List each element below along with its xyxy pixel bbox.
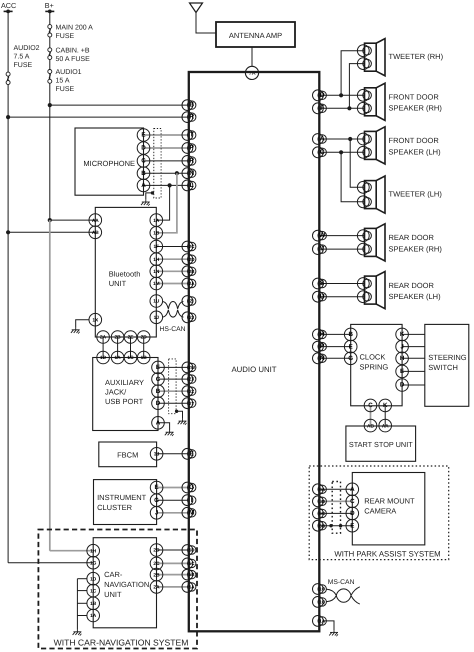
connector C microphone	[137, 155, 150, 168]
svg-text:E: E	[141, 132, 145, 139]
svg-text:1A: 1A	[153, 218, 160, 224]
box CAR-NAVIGATION UNIT	[93, 538, 156, 628]
svg-text:L: L	[190, 182, 194, 189]
svg-text:AUDIO1: AUDIO1	[56, 69, 82, 76]
wire audio to rear door speaker RH -	[319, 248, 364, 250]
connector D audio unit right (speaker)	[313, 90, 324, 101]
wire ACC rail vertical	[7, 11, 9, 562]
connector B microphone	[137, 167, 150, 180]
connector D aux	[152, 397, 165, 410]
connector AB start stop unit	[364, 419, 377, 432]
wire bluetooth 2B to aux 1A	[117, 337, 119, 358]
junction audio N to bluetooth 1B	[175, 171, 179, 175]
fuse AUDIO2 7.5A	[6, 72, 10, 76]
connector D microphone	[137, 142, 150, 155]
ground car-navigation unit	[73, 630, 82, 636]
wire clock spring E to steering switch	[402, 370, 425, 372]
connector 2B audio unit left (bluetooth)	[182, 266, 193, 277]
svg-text:N: N	[189, 170, 194, 177]
wire MS-CAN twisted pair high	[326, 587, 360, 596]
speaker TWEETER (RH)	[365, 39, 386, 76]
wire MS-CAN twisted pair low	[326, 596, 360, 605]
svg-text:5C: 5C	[189, 561, 196, 566]
svg-text:FUSE: FUSE	[56, 86, 75, 93]
fuse CABIN +B 50A	[48, 48, 52, 52]
svg-text:MAIN 200 A: MAIN 200 A	[56, 25, 94, 32]
svg-text:B: B	[156, 388, 161, 395]
connector 6A audio unit right (camera)	[313, 484, 324, 495]
wire clock spring K to steering switch	[402, 333, 425, 335]
svg-text:W: W	[319, 232, 326, 239]
svg-text:6B: 6B	[319, 523, 326, 528]
wire bluetooth 1N to audio 2B (shielded)	[156, 270, 189, 272]
connector 2Z audio unit left (aux)	[182, 386, 193, 397]
svg-text:G: G	[154, 497, 159, 504]
connector U audio unit right (speaker)	[313, 291, 324, 302]
wire microphone A to audio L	[144, 184, 189, 186]
box CLOCK SPRING	[351, 324, 402, 405]
connector C audio unit right (speaker)	[313, 147, 324, 158]
wire microphone D to audio P (shielded)	[144, 147, 189, 149]
wire HS-CAN twisted pair low	[163, 310, 184, 317]
svg-text:MS-CAN: MS-CAN	[328, 579, 355, 586]
svg-text:FRONT DOOR: FRONT DOOR	[389, 93, 440, 102]
connector G audio unit left (cluster)	[182, 482, 193, 493]
wire cluster E to audio G (shielded)	[157, 487, 189, 489]
ground aux shield	[178, 419, 187, 425]
connector R audio unit left (microphone)	[182, 156, 193, 167]
connector 1J bluetooth	[150, 311, 163, 324]
svg-text:C: C	[350, 498, 355, 505]
svg-text:TWEETER (LH): TWEETER (LH)	[389, 189, 443, 198]
svg-text:SPEAKER (RH): SPEAKER (RH)	[389, 104, 443, 113]
wire microphone E to audio T (shielded)	[144, 134, 189, 136]
svg-text:REAR MOUNT: REAR MOUNT	[364, 497, 415, 506]
connector E clock spring	[344, 340, 357, 353]
box REAR MOUNT CAMERA	[352, 473, 425, 545]
connector 1M bluetooth	[150, 277, 163, 290]
wire audio P to clock spring E	[319, 346, 350, 348]
connector 6B audio unit right (camera)	[313, 520, 324, 531]
connector 1F bluetooth	[150, 240, 163, 253]
svg-text:AUDIO2: AUDIO2	[14, 45, 40, 52]
svg-text:1H: 1H	[90, 548, 97, 554]
dashed group box WITH CAR-NAVIGATION SYSTEM	[38, 530, 197, 649]
svg-text:N: N	[320, 355, 325, 362]
svg-text:1A: 1A	[115, 355, 122, 361]
dotted group box WITH PARK ASSIST SYSTEM	[309, 466, 449, 560]
svg-text:2E: 2E	[128, 335, 135, 341]
wire audio 6C to camera D	[319, 512, 352, 514]
svg-text:CABIN. +B: CABIN. +B	[56, 48, 90, 55]
connector S audio unit right (speaker)	[313, 278, 324, 289]
svg-text:U: U	[320, 293, 325, 300]
connector A microphone	[137, 179, 150, 192]
svg-text:2J: 2J	[189, 315, 195, 320]
svg-text:6A: 6A	[319, 487, 326, 492]
svg-text:1A: 1A	[90, 613, 97, 619]
connector C camera	[346, 495, 359, 508]
connector B clock spring	[344, 328, 357, 341]
svg-text:2D: 2D	[189, 257, 196, 262]
connector 2W audio unit left (aux)	[182, 362, 193, 373]
connector 1D aux	[97, 351, 110, 364]
connector 2D audio unit left (bluetooth)	[182, 254, 193, 265]
connector 1O audio unit right (MS-CAN)	[313, 584, 324, 595]
svg-text:SPRING: SPRING	[360, 363, 389, 372]
wire bluetooth 1M to audio 2A (shielded)	[156, 283, 189, 285]
svg-text:WITH CAR-NAVIGATION SYSTEM: WITH CAR-NAVIGATION SYSTEM	[54, 637, 189, 647]
connector AA start stop unit	[379, 419, 392, 432]
svg-text:J: J	[155, 510, 159, 517]
wire B+ to navigation 1H	[50, 550, 93, 552]
svg-text:FRONT DOOR: FRONT DOOR	[389, 136, 440, 145]
wire cluster J to audio M (shielded)	[157, 512, 189, 514]
svg-text:CAR-: CAR-	[104, 570, 123, 579]
svg-text:5D: 5D	[189, 548, 196, 553]
wire microphone B to audio N	[144, 172, 189, 174]
svg-text:FBCM: FBCM	[117, 450, 138, 459]
connector 2D bluetooth	[137, 331, 150, 344]
svg-text:D: D	[156, 400, 161, 407]
wire branch to tweeter RH -	[349, 64, 364, 109]
wire aux C to audio 2X	[158, 378, 189, 380]
connector 2B navigation	[150, 568, 163, 581]
svg-text:K: K	[383, 402, 388, 409]
svg-text:SPEAKER (LH): SPEAKER (LH)	[389, 147, 442, 156]
svg-text:5A: 5A	[189, 585, 196, 590]
connector T audio unit left (microphone)	[182, 130, 193, 141]
wire bluetooth 1H to audio 2D (shielded)	[156, 258, 189, 260]
connector 5A audio unit left (navigation)	[182, 582, 193, 593]
svg-text:1C: 1C	[90, 588, 97, 594]
svg-text:2A: 2A	[153, 585, 160, 591]
wire clock spring K to start stop AA	[384, 406, 386, 426]
connector 2A bluetooth	[97, 331, 110, 344]
connector 1A bluetooth	[150, 214, 163, 227]
speaker FRONT DOOR SPEAKER (RH)	[365, 83, 386, 120]
svg-text:3J: 3J	[154, 452, 160, 458]
connector 1H bluetooth	[150, 253, 163, 266]
svg-text:ACC: ACC	[1, 1, 16, 10]
fuse MAIN 200A	[48, 25, 52, 29]
wire FBCM 3H to audio E	[157, 453, 189, 455]
speaker FRONT DOOR SPEAKER (LH)	[365, 127, 386, 164]
ground audio unit	[329, 630, 338, 636]
svg-text:2Z: 2Z	[189, 389, 195, 394]
svg-text:P: P	[189, 145, 194, 152]
svg-text:A: A	[156, 420, 161, 427]
svg-text:2C: 2C	[189, 244, 196, 249]
svg-text:E: E	[400, 368, 404, 375]
wire audio F to front door speaker RH -	[319, 107, 364, 109]
svg-text:REAR DOOR: REAR DOOR	[389, 281, 435, 290]
wire audio N branch to bluetooth 1B (shielded)	[156, 173, 177, 233]
connector I audio unit left (cluster)	[182, 495, 193, 506]
connector M audio unit left (cluster)	[182, 507, 193, 518]
svg-text:P: P	[320, 343, 325, 350]
wire audio 1A to ground	[323, 621, 334, 630]
connector H clock spring	[396, 352, 409, 365]
svg-text:D: D	[141, 145, 146, 152]
svg-text:2B: 2B	[115, 335, 122, 341]
connector 2D navigation	[150, 544, 163, 557]
connector 1N bluetooth	[150, 265, 163, 278]
svg-text:SPEAKER (LH): SPEAKER (LH)	[389, 292, 442, 301]
connector C aux	[152, 373, 165, 386]
connector E aux	[152, 361, 165, 374]
connector N audio unit left (microphone)	[182, 168, 193, 179]
wire B+ rail vertical upper	[49, 11, 51, 220]
svg-text:B: B	[141, 170, 146, 177]
connector D clock spring	[396, 379, 409, 392]
svg-text:1B: 1B	[90, 601, 97, 607]
svg-text:2I: 2I	[190, 299, 194, 304]
svg-text:USB PORT: USB PORT	[105, 397, 144, 406]
svg-text:R: R	[189, 158, 194, 165]
connector 2C navigation	[150, 557, 163, 570]
connector 2B bluetooth	[111, 331, 124, 344]
wire clock spring D to steering switch	[402, 384, 425, 386]
svg-text:FUSE: FUSE	[14, 62, 33, 69]
box MICROPHONE	[75, 128, 144, 195]
speaker REAR DOOR SPEAKER (LH)	[365, 272, 386, 309]
speaker REAR DOOR SPEAKER (RH)	[365, 224, 386, 261]
connector AB bluetooth	[89, 226, 102, 239]
connector B aux	[152, 385, 165, 398]
connector G clock spring	[344, 352, 357, 365]
wire branch to tweeter LH +	[350, 139, 364, 187]
connector C clock spring bottom	[364, 399, 377, 412]
svg-text:2W: 2W	[188, 365, 196, 370]
connector E microphone	[137, 129, 150, 142]
svg-text:E: E	[349, 343, 353, 350]
wire antenna amp to audio unit	[251, 47, 253, 66]
svg-text:MICROPHONE: MICROPHONE	[83, 159, 135, 168]
svg-text:JACK/: JACK/	[105, 388, 127, 397]
svg-text:2D: 2D	[153, 548, 160, 554]
wire B+ to audio unit pin B	[50, 104, 189, 106]
wire audio L branch to bluetooth 1A	[156, 185, 169, 220]
box Bluetooth UNIT	[95, 207, 156, 337]
svg-text:E: E	[156, 364, 160, 371]
connector P audio unit right (clock spring)	[313, 341, 324, 352]
svg-text:G: G	[189, 484, 194, 491]
wire audio C to front door speaker LH -	[319, 151, 364, 153]
wire navigation 2A to audio 5A (shielded)	[157, 586, 189, 588]
box STEERING SWITCH	[425, 324, 469, 406]
svg-text:2D: 2D	[141, 335, 148, 341]
wire microphone C to audio R	[144, 160, 189, 162]
svg-text:5B: 5B	[189, 572, 196, 577]
connector N audio unit right (clock spring)	[313, 353, 324, 364]
svg-text:E: E	[155, 484, 159, 491]
svg-text:CLOCK: CLOCK	[360, 352, 386, 361]
svg-text:1D: 1D	[100, 355, 107, 361]
svg-text:6C: 6C	[319, 511, 326, 516]
svg-text:F: F	[320, 105, 324, 112]
connector 1A navigation	[87, 609, 100, 622]
svg-text:2Y: 2Y	[189, 401, 195, 406]
connector J cluster	[150, 507, 163, 520]
wire antenna to antenna amp	[196, 13, 216, 34]
wire ACC to bluetooth AB	[8, 231, 95, 233]
svg-text:H: H	[400, 355, 405, 362]
connector 2J audio unit left	[182, 312, 193, 323]
wire audio A to front door speaker LH +	[319, 138, 364, 140]
connector 1H navigation	[87, 544, 100, 557]
svg-text:START STOP UNIT: START STOP UNIT	[349, 440, 413, 449]
connector 1C aux	[124, 351, 137, 364]
connector 1A audio unit right (ground)	[313, 616, 324, 627]
svg-text:UNIT: UNIT	[109, 279, 127, 288]
connector B audio unit left (power)	[182, 100, 193, 111]
connector 2I audio unit left	[182, 296, 193, 307]
svg-text:B: B	[348, 331, 353, 338]
wire audio to rear door speaker LH -	[319, 296, 364, 298]
connector 2A audio unit left (bluetooth)	[182, 278, 193, 289]
svg-text:1J: 1J	[154, 315, 160, 321]
svg-text:AA: AA	[92, 218, 99, 224]
svg-text:SPEAKER (RH): SPEAKER (RH)	[389, 244, 443, 253]
connector 5C audio unit left (navigation)	[182, 558, 193, 569]
connector E2 clock spring	[396, 365, 409, 378]
wire B+ to bluetooth AA	[50, 219, 96, 221]
wire audio D to front door speaker RH +	[319, 94, 364, 96]
svg-text:1O: 1O	[319, 587, 326, 592]
wire navigation 2C to audio 5C (shielded)	[157, 562, 189, 564]
svg-text:E: E	[189, 450, 194, 457]
svg-text:G: G	[348, 355, 353, 362]
wire ACC to navigation 1G	[8, 562, 93, 564]
connector E cluster	[150, 481, 163, 494]
svg-text:E: E	[350, 522, 354, 529]
wire audio N to clock spring G	[319, 357, 350, 359]
svg-text:1A: 1A	[319, 619, 326, 624]
connector 2E bluetooth	[124, 331, 137, 344]
connector W audio unit right (speaker)	[313, 230, 324, 241]
wire aux A to ground	[158, 423, 170, 430]
svg-text:C: C	[156, 376, 161, 383]
antenna	[190, 3, 203, 13]
wire clock spring H to steering switch	[402, 357, 425, 359]
box AUXILIARY JACK/USB PORT	[93, 358, 158, 431]
svg-text:UNIT: UNIT	[104, 590, 122, 599]
wire ACC to audio unit pin R	[8, 116, 189, 118]
svg-text:1X: 1X	[92, 317, 99, 323]
connector F audio unit right (speaker)	[313, 103, 324, 114]
connector 1B bluetooth	[150, 227, 163, 240]
wire aux E to audio 2W	[158, 366, 189, 368]
connector 1Q audio unit right (MS-CAN)	[313, 597, 324, 608]
connector K clock spring	[396, 328, 409, 341]
svg-text:STEERING: STEERING	[428, 353, 467, 362]
svg-text:NAVIGATION: NAVIGATION	[104, 580, 149, 589]
wire shield drain to ground	[151, 191, 154, 194]
svg-text:2A: 2A	[189, 281, 196, 286]
svg-text:1H: 1H	[153, 257, 160, 263]
wire branch to tweeter RH +	[341, 51, 364, 96]
svg-text:7.5 A: 7.5 A	[14, 54, 30, 61]
svg-text:SWITCH: SWITCH	[428, 363, 458, 372]
svg-text:2B: 2B	[189, 269, 196, 274]
svg-text:CLUSTER: CLUSTER	[97, 503, 133, 512]
box ANTENNA AMP	[216, 22, 295, 47]
svg-text:I: I	[191, 497, 193, 504]
connector 2X audio unit left (aux)	[182, 374, 193, 385]
connector A aux	[152, 417, 165, 430]
wire audio to rear door speaker LH +	[319, 283, 364, 285]
svg-text:1Q: 1Q	[319, 600, 326, 605]
svg-text:B+: B+	[45, 1, 54, 10]
svg-text:CAMERA: CAMERA	[364, 507, 396, 516]
wire audio 6D to camera C (shielded)	[319, 500, 352, 502]
shield box around microphone wires	[154, 129, 161, 199]
wire aux B to audio 2Z (shielded)	[158, 390, 189, 392]
svg-text:WITH PARK ASSIST SYSTEM: WITH PARK ASSIST SYSTEM	[334, 549, 440, 558]
svg-text:V: V	[320, 246, 325, 253]
wire audio H to clock spring B	[319, 333, 350, 335]
connector D camera	[346, 507, 359, 520]
svg-text:15 A: 15 A	[56, 78, 70, 85]
wire B+ rail vertical lower (to car-navigation)	[49, 220, 51, 551]
connector 1C navigation	[87, 584, 100, 597]
wire HS-CAN twisted pair high	[163, 301, 184, 308]
connector 2Y audio unit left (aux)	[182, 398, 193, 409]
svg-text:J: J	[400, 343, 404, 350]
svg-text:K: K	[400, 331, 405, 338]
connector 1D navigation	[87, 572, 100, 585]
connector 1X bluetooth	[89, 313, 102, 326]
connector 1A aux	[111, 351, 124, 364]
ground microphone shield	[141, 200, 150, 206]
svg-text:TWEETER (RH): TWEETER (RH)	[389, 52, 444, 61]
wire branch to tweeter LH -	[341, 152, 364, 202]
svg-text:A: A	[141, 182, 146, 189]
wire clock spring C to start stop AB (shielded)	[370, 406, 372, 426]
svg-text:REAR DOOR: REAR DOOR	[389, 233, 435, 242]
svg-text:2B: 2B	[153, 572, 160, 578]
svg-text:2C: 2C	[153, 561, 160, 567]
connector E audio unit left (FBCM)	[182, 448, 193, 459]
junction audio L to bluetooth 1A	[168, 183, 172, 187]
connector J clock spring	[396, 340, 409, 353]
svg-text:AUXILIARY: AUXILIARY	[105, 378, 144, 387]
svg-text:D: D	[400, 382, 405, 389]
svg-text:D: D	[320, 92, 325, 99]
box INSTRUMENT CLUSTER	[94, 480, 157, 525]
svg-text:Bluetooth: Bluetooth	[109, 269, 141, 278]
connector 6D audio unit right (camera)	[313, 496, 324, 507]
svg-text:1G: 1G	[90, 560, 97, 566]
shield box around camera wires	[332, 482, 340, 534]
connector 1U bluetooth	[150, 295, 163, 308]
speaker TWEETER (LH)	[365, 176, 386, 213]
wire bluetooth 1F to audio 2C	[156, 246, 189, 248]
connector 2C audio unit left (bluetooth)	[182, 241, 193, 252]
svg-text:INSTRUMENT: INSTRUMENT	[97, 493, 147, 502]
wire navigation 1D 1C 1B 1A to ground	[77, 578, 87, 580]
box AUDIO UNIT	[189, 72, 319, 631]
ground bluetooth unit	[71, 328, 80, 334]
connector P audio unit left (microphone)	[182, 143, 193, 154]
svg-text:A: A	[320, 136, 325, 143]
svg-text:1F: 1F	[153, 244, 159, 250]
connector AA bluetooth	[89, 214, 102, 227]
wire audio 6A to camera A	[319, 488, 352, 490]
wire navigation 2D to audio 5D	[157, 549, 189, 551]
svg-text:C: C	[368, 402, 373, 409]
